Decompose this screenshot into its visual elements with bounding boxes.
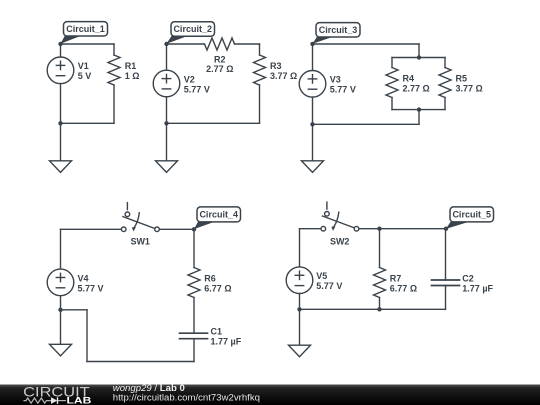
wire — [60, 44, 62, 57]
wire — [193, 298, 195, 334]
node dot — [297, 307, 301, 311]
wire — [166, 123, 168, 161]
wire — [159, 228, 194, 230]
svg-text:V3: V3 — [330, 75, 341, 85]
wire — [379, 298, 381, 310]
svg-text:V4: V4 — [78, 273, 89, 283]
resistor R6 — [188, 268, 216, 298]
svg-text:2.77 Ω: 2.77 Ω — [403, 84, 430, 94]
svg-text:C1: C1 — [211, 327, 223, 337]
node dot — [164, 121, 168, 125]
wire — [392, 109, 445, 111]
svg-text:R3: R3 — [270, 61, 282, 71]
wire — [312, 124, 314, 161]
svg-text:Circuit_2: Circuit_2 — [173, 24, 212, 34]
wire — [391, 98, 393, 110]
resistor R4 — [386, 68, 414, 98]
wire — [193, 229, 195, 267]
wire — [60, 123, 62, 161]
resistor R1 — [108, 55, 136, 85]
wire — [392, 57, 445, 59]
svg-text:Circuit_1: Circuit_1 — [66, 24, 105, 34]
capacitor C2 — [432, 274, 474, 286]
node dot — [310, 42, 314, 46]
footer bar — [0, 385, 540, 405]
capacitor C1 — [180, 327, 223, 339]
wire — [166, 97, 168, 124]
svg-text:V5: V5 — [316, 271, 327, 281]
svg-text:V2: V2 — [184, 74, 195, 84]
CircuitLab logo — [23, 384, 92, 405]
svg-text:6.77 Ω: 6.77 Ω — [204, 284, 231, 294]
wire — [379, 229, 381, 268]
wire — [444, 58, 446, 68]
wire — [167, 43, 205, 45]
svg-text:SW1: SW1 — [130, 236, 150, 246]
svg-text:C2: C2 — [462, 274, 474, 284]
svg-text:5.77 V: 5.77 V — [330, 85, 356, 95]
voltage source V4 — [47, 269, 88, 296]
wire — [60, 229, 62, 269]
svg-text:5.77 V: 5.77 V — [184, 84, 210, 94]
wire — [299, 294, 301, 310]
wire — [259, 85, 261, 123]
wire — [193, 339, 195, 362]
node dot — [192, 227, 196, 231]
wire — [444, 98, 446, 110]
wire — [61, 122, 115, 124]
wire — [445, 286, 447, 310]
footer title text — [113, 383, 260, 404]
node dot — [377, 227, 381, 231]
svg-text:R7: R7 — [390, 274, 402, 284]
wire — [300, 308, 446, 310]
svg-text:1 Ω: 1 Ω — [125, 71, 140, 81]
wire — [61, 309, 88, 311]
ground — [50, 344, 72, 356]
switch SW2 — [321, 202, 359, 246]
svg-text:3.77 Ω: 3.77 Ω — [270, 71, 297, 81]
node dot — [417, 55, 421, 59]
wire — [61, 228, 122, 230]
svg-text:1.77 µF: 1.77 µF — [462, 284, 493, 294]
node dot — [58, 42, 62, 46]
svg-text:R6: R6 — [204, 274, 216, 284]
wire — [60, 84, 62, 124]
svg-text:5.77 V: 5.77 V — [316, 281, 342, 291]
label Circuit_5 — [446, 207, 494, 229]
node dot — [417, 107, 421, 111]
ground — [289, 345, 311, 357]
wire — [60, 310, 62, 345]
ground — [302, 161, 324, 173]
svg-text:2.77 Ω: 2.77 Ω — [206, 64, 233, 74]
wire — [86, 310, 88, 362]
node dot — [58, 121, 62, 125]
svg-text:http://circuitlab.com/cnt73w2v: http://circuitlab.com/cnt73w2vrhfkq — [113, 393, 260, 404]
svg-text:R2: R2 — [214, 54, 226, 64]
node dot — [444, 227, 448, 231]
svg-text:3.77 Ω: 3.77 Ω — [456, 84, 483, 94]
svg-text:SW2: SW2 — [330, 236, 350, 246]
node dot — [58, 308, 62, 312]
label Circuit_2 — [167, 22, 215, 44]
wire — [313, 43, 420, 45]
svg-text:Circuit_3: Circuit_3 — [319, 25, 358, 35]
wire — [113, 44, 115, 55]
label Circuit_1 — [61, 22, 108, 44]
svg-text:5.77 V: 5.77 V — [78, 283, 104, 293]
voltage source V2 — [153, 70, 195, 97]
wire — [418, 110, 420, 125]
label Circuit_4 — [194, 207, 241, 229]
wire — [87, 361, 194, 363]
voltage source V1 — [47, 57, 89, 84]
wire — [312, 97, 314, 124]
svg-text:5 V: 5 V — [78, 71, 92, 81]
svg-text:Circuit_4: Circuit_4 — [199, 210, 238, 220]
wire — [259, 44, 261, 55]
wire — [60, 296, 62, 310]
svg-text:1.77 µF: 1.77 µF — [211, 337, 242, 347]
resistor R2 — [205, 38, 235, 64]
wire — [299, 309, 301, 345]
switch SW1 — [121, 203, 159, 247]
wire — [113, 85, 115, 123]
ground — [156, 161, 178, 173]
svg-text:R1: R1 — [125, 61, 137, 71]
wire — [312, 44, 314, 71]
wire — [313, 123, 420, 125]
wire — [418, 44, 420, 58]
resistor R7 — [374, 268, 402, 298]
resistor R5 — [439, 68, 467, 98]
svg-text:R4: R4 — [403, 74, 415, 84]
node dot — [377, 307, 381, 311]
wire — [235, 43, 260, 45]
label Circuit_3 — [313, 23, 361, 44]
voltage source V3 — [299, 71, 341, 98]
wire — [61, 43, 115, 45]
ground — [50, 161, 72, 173]
voltage source V5 — [286, 267, 327, 294]
svg-text:V1: V1 — [78, 61, 89, 71]
node dot — [310, 122, 314, 126]
wire — [166, 44, 168, 70]
wire — [300, 228, 322, 230]
wire — [299, 229, 301, 267]
wire — [391, 58, 393, 68]
svg-text:R5: R5 — [456, 74, 468, 84]
node dot — [164, 42, 168, 46]
svg-text:LAB: LAB — [67, 395, 92, 405]
wire — [359, 228, 446, 230]
resistor R3 — [254, 55, 282, 85]
svg-text:Circuit_5: Circuit_5 — [452, 210, 491, 220]
svg-text:6.77 Ω: 6.77 Ω — [390, 284, 417, 294]
wire — [167, 122, 260, 124]
wire — [445, 229, 447, 280]
